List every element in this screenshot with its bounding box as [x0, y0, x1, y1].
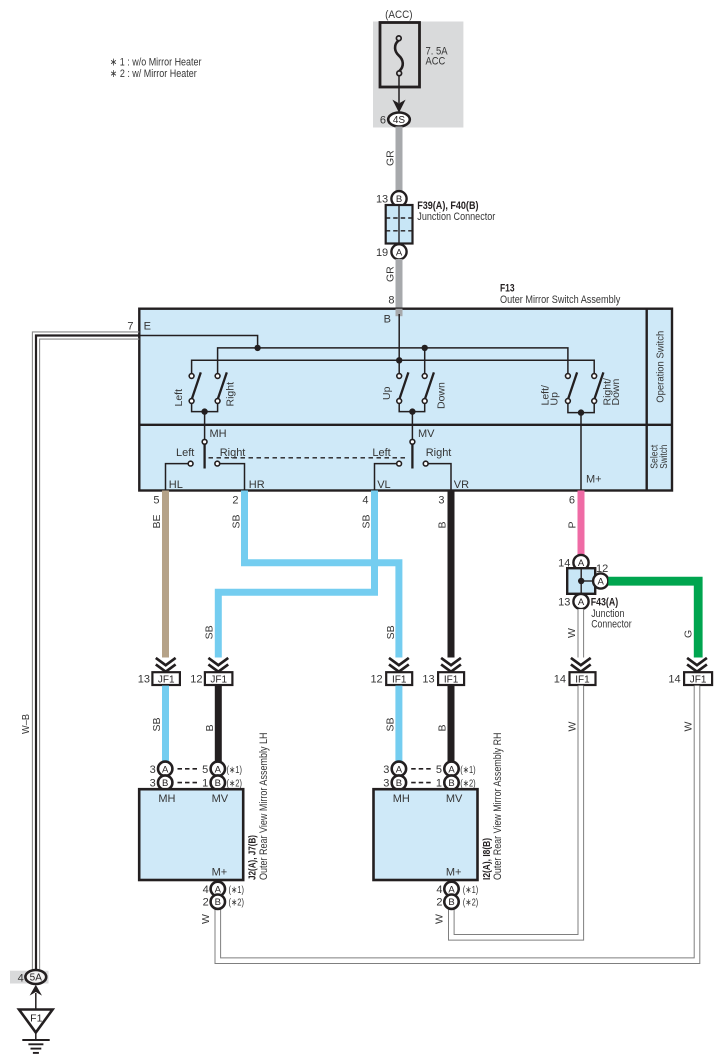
svg-text:Left: Left [372, 447, 390, 459]
wire fuse to connector 4S [398, 76, 400, 104]
svg-text:MH: MH [210, 428, 227, 440]
junction connector pin A (19) [391, 244, 406, 259]
wire G from F43 to JF1-14 [608, 581, 698, 657]
node M+ join dot [578, 409, 584, 415]
svg-text:Right: Right [220, 447, 246, 459]
svg-text:Connector: Connector [591, 619, 632, 631]
svg-text:B: B [396, 194, 402, 205]
RH Outer Rear View Mirror box [374, 789, 478, 880]
svg-text:SB: SB [385, 717, 397, 731]
LH mirror pin A3 MH [158, 762, 172, 776]
RH mirror pin B3 MH [392, 775, 406, 789]
wire B from VR pin3 to IF1-13 [448, 491, 455, 658]
connector box IF1 (13) [438, 672, 464, 685]
svg-text:MH: MH [393, 793, 410, 805]
svg-text:B: B [162, 778, 168, 789]
arrow chevron IF1-12 [389, 658, 409, 672]
svg-text:ACC: ACC [426, 56, 446, 68]
svg-text:A: A [162, 764, 169, 775]
svg-text:BE: BE [151, 514, 163, 528]
wire GR stub into box [396, 309, 403, 317]
fuse terminal bottom [397, 71, 402, 76]
LH mirror pin B1 MV [211, 775, 225, 789]
section divider operation/select [139, 424, 672, 426]
svg-text:13: 13 [138, 673, 150, 685]
svg-text:GR: GR [385, 266, 397, 282]
svg-text:SB: SB [385, 625, 397, 639]
switch SW3 blade Right/Down [595, 372, 604, 398]
svg-text:E: E [144, 321, 151, 333]
svg-text:8: 8 [388, 295, 394, 307]
switch SW2 Up contact [397, 374, 402, 379]
gray band at 5A [10, 971, 49, 984]
node MV join dot [409, 408, 415, 414]
svg-text:5: 5 [436, 764, 442, 776]
svg-text:JF1: JF1 [158, 674, 175, 685]
arrow into 4S [392, 100, 405, 113]
svg-text:B: B [396, 778, 402, 789]
connector box IF1 (14) [570, 672, 596, 685]
RH mirror pin A4 M+ [444, 882, 458, 896]
svg-text:JF1: JF1 [210, 674, 227, 685]
svg-text:Outer Rear View Mirror Assembl: Outer Rear View Mirror Assembly RH [492, 732, 504, 880]
wire GR from 4S to junction connector B [396, 127, 403, 192]
wire W from F43-13 to IF1-14 (outlined) [577, 609, 584, 657]
node MH join dot [201, 408, 207, 414]
svg-text:W: W [200, 914, 212, 924]
svg-text:W: W [434, 914, 446, 924]
svg-text:B: B [204, 724, 216, 731]
svg-text:A: A [396, 247, 403, 258]
svg-text:(∗1): (∗1) [227, 765, 243, 776]
LH mirror pin A4 M+ [211, 882, 225, 896]
wire Up contact stub [398, 360, 400, 373]
svg-text:F43(A): F43(A) [591, 596, 619, 608]
svg-text:7: 7 [127, 321, 133, 333]
node B/Up junction dot [396, 357, 402, 363]
wire E inside box [139, 336, 257, 348]
svg-text:I2(A), I8(B): I2(A), I8(B) [481, 838, 493, 880]
svg-text:MV: MV [446, 793, 463, 805]
wire M+ down to box bottom [580, 413, 582, 491]
svg-text:Left: Left [176, 447, 194, 459]
svg-text:3: 3 [150, 764, 156, 776]
svg-text:M+: M+ [586, 474, 602, 486]
svg-text:A: A [598, 577, 605, 588]
svg-text:(∗1): (∗1) [229, 885, 245, 896]
svg-text:MV: MV [418, 428, 435, 440]
svg-text:Right: Right [426, 447, 452, 459]
svg-text:Outer Rear View Mirror Assembl: Outer Rear View Mirror Assembly LH [258, 732, 270, 880]
F13 Outer Mirror Switch Assembly box [139, 309, 672, 491]
arrow up into 5A [30, 985, 42, 996]
wire W-B from F13 pin7 E down left side (outlined) [32, 332, 139, 970]
LH mirror pin B2 M+ [211, 895, 225, 909]
wire B JF1-12 to LH mirror MV [215, 686, 222, 762]
wire HL from Left contact to pin 5 [166, 464, 189, 491]
junction connector F43(A) box [567, 568, 595, 594]
ground hatching [22, 1039, 49, 1041]
fuse block gray area [373, 22, 463, 128]
wire to ground [35, 993, 37, 1010]
svg-text:Operation Switch: Operation Switch [655, 331, 667, 403]
svg-text:A: A [448, 764, 455, 775]
wire SW1 bottom join [192, 403, 218, 411]
dashes B3-B1 [178, 782, 199, 784]
svg-text:Up: Up [548, 392, 560, 406]
svg-text:12: 12 [190, 673, 202, 685]
ground stem [35, 1033, 37, 1041]
svg-text:4: 4 [203, 884, 209, 896]
svg-text:4S: 4S [393, 115, 406, 126]
dashes A3-A5 [178, 768, 199, 770]
F43 pin A (14) [573, 555, 588, 570]
junction connector F39(A), F40(B) box [386, 205, 413, 244]
svg-text:(ACC): (ACC) [385, 9, 412, 21]
svg-text:W: W [683, 722, 695, 732]
wire SW2 bottom join [399, 403, 425, 411]
side strip divider [646, 309, 648, 491]
wire Down contact stub [424, 348, 426, 374]
select switch MV blade [411, 444, 413, 468]
arrow chevron JF1-14 [687, 658, 707, 672]
fuse element S-curve [395, 40, 403, 71]
switch SW1 blade Right [218, 372, 227, 398]
wire SB from HR pin2 to IF1-12 [245, 491, 399, 658]
svg-text:GR: GR [385, 150, 397, 166]
wire SB IF1-12 to RH mirror MH [395, 686, 402, 762]
svg-text:IF1: IF1 [392, 674, 407, 685]
select MH Right contact [215, 461, 220, 466]
svg-text:Switch: Switch [658, 445, 670, 469]
wire VR from Right contact to pin 3 [428, 464, 451, 491]
svg-text:P: P [567, 521, 579, 528]
svg-text:2: 2 [203, 897, 209, 909]
svg-text:SB: SB [231, 514, 243, 528]
svg-text:B: B [448, 897, 454, 908]
RH mirror pin A3 MH [392, 762, 406, 776]
connector oval 5A [25, 970, 46, 984]
svg-text:B: B [448, 778, 454, 789]
svg-text:Outer Mirror Switch Assembly: Outer Mirror Switch Assembly [500, 294, 621, 306]
arrow chevron IF1-14 [571, 658, 591, 672]
svg-text:G: G [683, 630, 695, 638]
svg-text:HR: HR [249, 479, 265, 491]
svg-text:SB: SB [151, 717, 163, 731]
svg-text:6: 6 [569, 495, 575, 507]
LH Outer Rear View Mirror box [139, 789, 243, 880]
RH mirror pin A5 MV [444, 762, 458, 776]
svg-text:A: A [396, 764, 403, 775]
svg-text:VL: VL [377, 479, 390, 491]
bus line 1 (E bus) [218, 348, 568, 374]
switch SW1 Left contact [189, 374, 194, 379]
svg-text:14: 14 [554, 673, 566, 685]
svg-text:J2(A), J7(B): J2(A), J7(B) [246, 835, 258, 880]
select switch MH blade [203, 444, 205, 468]
RH mirror pin B1 MV [444, 775, 458, 789]
svg-text:VR: VR [454, 479, 469, 491]
svg-text:F13: F13 [500, 283, 515, 295]
svg-text:13: 13 [558, 597, 570, 609]
switch SW3 blade Left/Up [568, 372, 577, 398]
svg-text:Junction Connector: Junction Connector [417, 211, 495, 223]
svg-text:2: 2 [232, 495, 238, 507]
select switch MV contact [410, 439, 415, 444]
switch SW1 Right contact [215, 374, 220, 379]
switch SW1 blade Left [192, 372, 201, 398]
F43 pin A (13) [573, 594, 588, 609]
svg-text:MV: MV [212, 793, 229, 805]
fuse FUSE 7.5A ACC box [380, 23, 420, 88]
svg-text:Down: Down [436, 382, 448, 409]
switch SW1 lower contacts [189, 399, 194, 404]
svg-text:(∗1): (∗1) [460, 765, 476, 776]
svg-text:1: 1 [436, 778, 442, 790]
svg-text:W: W [566, 628, 578, 638]
svg-text:∗ 2 : w/ Mirror Heater: ∗ 2 : w/ Mirror Heater [110, 68, 197, 80]
wire SW3 bottom join [568, 403, 594, 412]
bus line 2 (B bus) [192, 360, 595, 373]
svg-text:4: 4 [436, 884, 442, 896]
svg-text:Right: Right [225, 382, 237, 407]
select MV Left contact [397, 461, 402, 466]
node E junction dot [254, 345, 260, 351]
switch SW2 Down contact [422, 374, 427, 379]
switch SW2 blade Up [400, 372, 409, 398]
arrow chevron IF1-13 [441, 658, 461, 672]
wire GR from junction connector to F13 pin 8 [396, 259, 403, 315]
node Down contact dot [422, 345, 428, 351]
connector oval 4S [388, 113, 410, 127]
wire MV down to select switch [411, 412, 413, 440]
svg-text:3: 3 [438, 495, 444, 507]
F43 pin A (12) [593, 573, 608, 588]
wire W JF1-14 down and to LH mirror (outlined) [218, 686, 697, 961]
connector box JF1 (12) [205, 672, 233, 685]
svg-text:IF1: IF1 [575, 674, 590, 685]
svg-text:Down: Down [610, 378, 622, 405]
svg-text:JF1: JF1 [690, 674, 707, 685]
dashes B3-B1 RH [411, 782, 432, 784]
switch SW3 Left/Up contact [566, 374, 571, 379]
arrow chevron JF1-12 [208, 658, 228, 672]
svg-text:B: B [437, 724, 449, 731]
LH mirror pin B3 MH [158, 775, 172, 789]
svg-text:13: 13 [376, 194, 388, 206]
arrow chevron JF1-13 [156, 658, 176, 672]
svg-text:19: 19 [376, 247, 388, 259]
svg-text:B: B [215, 897, 221, 908]
select link dashed line [209, 457, 407, 459]
LH mirror pin A5 MV [211, 762, 225, 776]
svg-text:4: 4 [362, 495, 368, 507]
wire B IF1-13 to RH mirror MV [448, 686, 455, 762]
svg-text:MH: MH [158, 793, 175, 805]
switch SW3 Right/Down contact [592, 374, 597, 379]
svg-text:12: 12 [370, 673, 382, 685]
svg-text:(∗1): (∗1) [463, 885, 479, 896]
svg-text:(∗2): (∗2) [463, 898, 479, 909]
svg-text:3: 3 [383, 764, 389, 776]
svg-text:W: W [566, 722, 578, 732]
svg-text:IF1: IF1 [444, 674, 459, 685]
svg-text:13: 13 [422, 673, 434, 685]
svg-text:3: 3 [150, 778, 156, 790]
connector box JF1 (13) [152, 672, 180, 685]
wire BE from HL pin5 to JF1-13 [162, 491, 169, 658]
connector box JF1 (14) [684, 672, 712, 685]
switch SW2 lower contacts [397, 399, 402, 404]
svg-text:F1: F1 [30, 1013, 42, 1025]
svg-text:M+: M+ [212, 867, 228, 879]
wire MH down to select switch [204, 412, 206, 440]
svg-text:6: 6 [380, 115, 386, 127]
svg-text:3: 3 [383, 778, 389, 790]
svg-text:B: B [437, 521, 449, 528]
fuse terminal top [396, 36, 401, 41]
select MH Left contact [188, 461, 193, 466]
svg-text:14: 14 [668, 673, 680, 685]
node F43 center dot [578, 578, 584, 584]
wire VL from Left contact to pin 4 [375, 464, 397, 491]
switch SW3 lower contacts [566, 399, 571, 404]
ground triangle F1 [19, 1010, 53, 1033]
wire B vertical inside box [398, 314, 400, 360]
svg-text:5A: 5A [30, 973, 43, 984]
svg-text:Up: Up [381, 386, 393, 400]
wire SB JF1-13 to LH mirror MH [162, 686, 169, 762]
svg-text:4: 4 [18, 972, 24, 984]
RH mirror pin B2 M+ [444, 895, 458, 909]
svg-text:HL: HL [169, 479, 183, 491]
svg-text:5: 5 [153, 495, 159, 507]
wire SB from VL pin4 to JF1-12 [218, 491, 374, 658]
svg-text:∗ 1 : w/o Mirror Heater: ∗ 1 : w/o Mirror Heater [110, 57, 202, 69]
wire W IF1-14 down and to RH mirror (outlined) [451, 686, 581, 938]
svg-text:SB: SB [204, 625, 216, 639]
svg-text:12: 12 [596, 563, 608, 575]
svg-text:5: 5 [202, 764, 208, 776]
connector box IF1 (12) [386, 672, 412, 685]
svg-text:Left: Left [173, 389, 185, 407]
svg-text:B: B [215, 778, 221, 789]
svg-text:A: A [215, 764, 222, 775]
svg-text:B: B [384, 314, 391, 326]
svg-text:1: 1 [202, 778, 208, 790]
svg-text:SB: SB [361, 514, 373, 528]
switch SW2 blade Down [425, 372, 434, 398]
wire HR from Right contact to pin 2 [220, 464, 245, 491]
svg-text:W–B: W–B [20, 714, 32, 734]
svg-text:(∗2): (∗2) [229, 898, 245, 909]
svg-text:A: A [578, 597, 585, 608]
wire P from M+ pin6 to F43 [578, 491, 585, 557]
svg-text:2: 2 [436, 897, 442, 909]
svg-text:M+: M+ [446, 867, 462, 879]
junction connector pin B (13) [391, 191, 406, 206]
select switch MH contact [202, 439, 207, 444]
dashes A3-A5 RH [411, 768, 432, 770]
select MV Right contact [423, 461, 428, 466]
